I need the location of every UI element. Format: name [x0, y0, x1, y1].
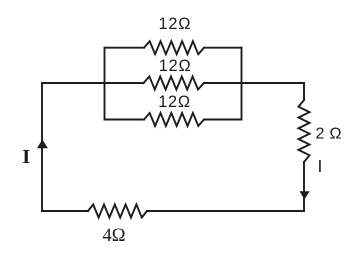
svg-text:Ω: Ω	[330, 126, 342, 143]
svg-text:I: I	[318, 156, 323, 176]
wire right vertical top	[303, 83, 305, 100]
resistor R2 12Ω middle	[144, 77, 205, 90]
wire bottom left segment	[42, 210, 88, 212]
resistor R5 2Ω vertical	[299, 100, 310, 162]
wire top row right	[204, 47, 242, 49]
svg-text:4Ω: 4Ω	[103, 226, 126, 246]
wire bottom row of block left	[105, 119, 145, 121]
svg-text:I: I	[22, 146, 30, 168]
svg-text:12Ω: 12Ω	[159, 57, 192, 75]
wire parallel-block right vertical	[241, 48, 243, 120]
current arrow down (right branch)	[300, 191, 310, 199]
resistor R1 12Ω top	[144, 41, 204, 54]
svg-text:2: 2	[316, 126, 325, 143]
wire bottom row of block right	[204, 119, 242, 121]
wire middle row right	[204, 82, 304, 84]
wire right vertical bottom	[303, 162, 305, 211]
wire bottom right segment	[147, 210, 304, 212]
current arrow up (left branch)	[37, 140, 48, 149]
resistor R3 12Ω bottom of block	[144, 113, 204, 126]
wire left vertical	[41, 83, 43, 211]
svg-text:12Ω: 12Ω	[159, 15, 192, 33]
svg-text:12Ω: 12Ω	[158, 93, 191, 111]
wire parallel-block left vertical	[104, 48, 106, 120]
resistor R4 4Ω	[88, 205, 147, 218]
wire top row left	[105, 47, 145, 49]
wire middle row left	[42, 82, 144, 84]
